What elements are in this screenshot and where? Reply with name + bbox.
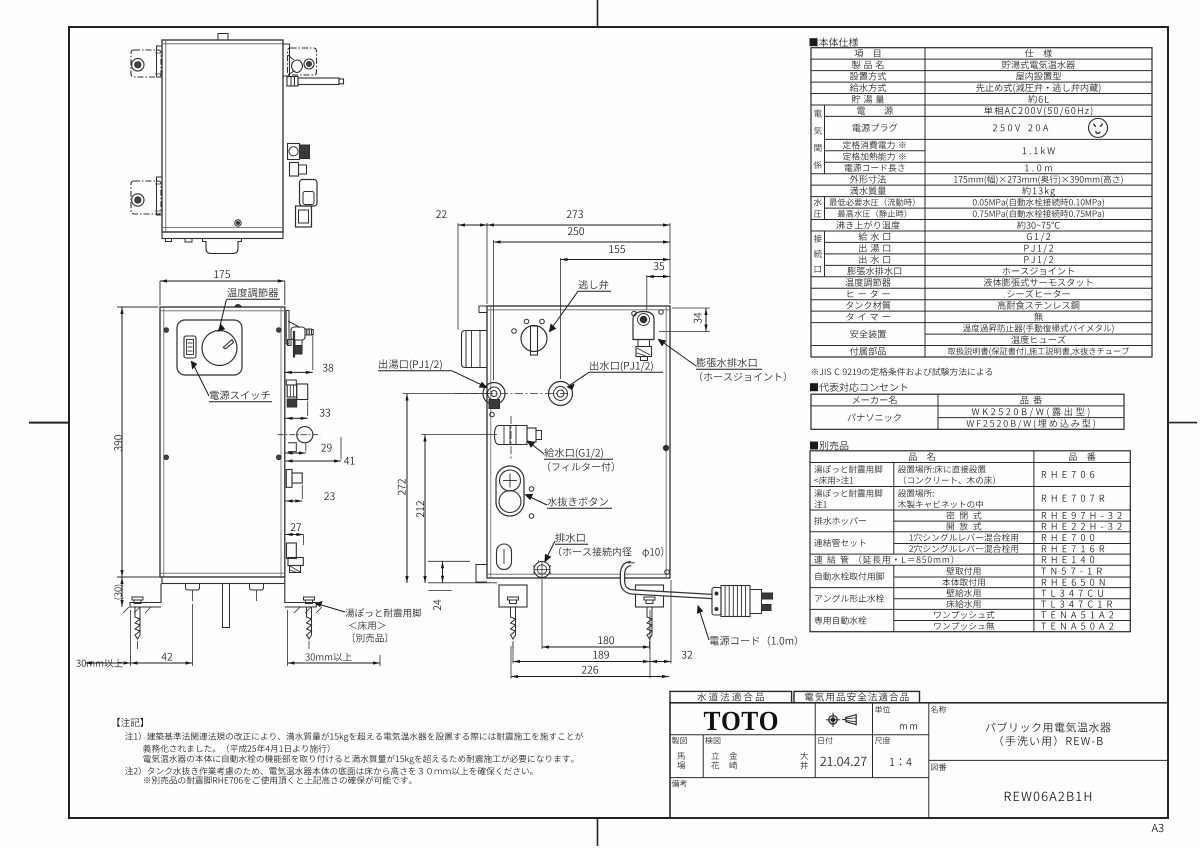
right anchor screw front bbox=[304, 597, 315, 600]
top view top tab bbox=[218, 34, 228, 41]
phantom lines left brackets bbox=[155, 52, 163, 54]
center mark right bbox=[1168, 422, 1197, 424]
top view left bracket lower bbox=[131, 181, 161, 214]
top view outlet pipe bbox=[287, 77, 298, 87]
top view body bbox=[162, 40, 283, 232]
label 電源コード bbox=[710, 636, 797, 646]
mount rails bbox=[157, 46, 163, 77]
oval slot bbox=[497, 544, 512, 570]
notes block bbox=[117, 718, 143, 727]
group label 水圧 bbox=[814, 198, 822, 206]
fitting 出水口 face bbox=[549, 382, 573, 406]
TOTO logo bbox=[704, 712, 777, 731]
option table rows bbox=[909, 452, 935, 460]
dim 33 bbox=[307, 401, 309, 416]
dim 34 bbox=[672, 307, 710, 309]
top view relief valve teardrop bbox=[292, 60, 303, 73]
label 逃し弁 bbox=[578, 280, 608, 289]
dim 42 and 30mm以上 bbox=[130, 610, 132, 666]
dim 23 bbox=[301, 485, 303, 500]
lift tab on top edge bbox=[235, 305, 242, 308]
center mark bottom bbox=[597, 818, 599, 846]
temperature knob bbox=[202, 331, 237, 366]
dim 38 bbox=[312, 334, 314, 370]
label 電源スイッチ bbox=[210, 390, 270, 399]
control panel bbox=[177, 320, 242, 375]
spec rows bbox=[855, 49, 881, 57]
dim (30) bbox=[121, 577, 123, 607]
排水口 drain port bbox=[534, 562, 550, 578]
top view right elbow block bbox=[300, 180, 318, 207]
relief valve side profile bbox=[286, 311, 289, 345]
centerline fittings bbox=[455, 393, 570, 395]
spec table grid bbox=[811, 48, 1152, 357]
power plug symbol bbox=[1089, 118, 1108, 137]
projection symbol bbox=[829, 716, 837, 724]
front view body bbox=[160, 307, 285, 577]
group label 接続口 bbox=[814, 235, 822, 243]
JIS note bbox=[812, 368, 992, 376]
left anchor screw bbox=[132, 597, 143, 600]
dim 175 bbox=[159, 281, 161, 305]
sheet size label A3 bbox=[1152, 824, 1164, 832]
side view screws bottom bbox=[665, 570, 670, 575]
fitting 出湯口 side bbox=[286, 380, 296, 385]
bolt tabs bbox=[186, 584, 200, 591]
label 水抜きボタン bbox=[547, 497, 608, 506]
label 給水口(G1/2) bbox=[544, 448, 603, 459]
dims bottom 180 189 32 226 bbox=[541, 579, 543, 649]
top view right valve fitting bbox=[288, 144, 300, 160]
front panel screws bbox=[164, 328, 169, 333]
label 温度調節器 bbox=[227, 288, 278, 298]
top view right bracket bbox=[288, 48, 317, 75]
label 耐震用脚 front bbox=[345, 608, 421, 617]
screws near button bbox=[529, 487, 534, 492]
top view screw bbox=[235, 220, 241, 226]
label 出湯口(PJ1/2) bbox=[379, 359, 441, 370]
fitting 出水口 side circle bbox=[297, 427, 313, 443]
top view base bbox=[162, 232, 283, 239]
dim 155 bbox=[560, 258, 562, 379]
group label 電気関係 bbox=[814, 110, 822, 117]
center mark top bbox=[597, 0, 599, 27]
dim 390 bbox=[117, 306, 158, 308]
dim 27 bbox=[291, 523, 301, 531]
label 排水口 bbox=[555, 533, 584, 542]
dim 22 273 bbox=[457, 223, 459, 330]
title block grid bbox=[670, 703, 1168, 818]
label 膨張水排水口 bbox=[696, 358, 756, 367]
side view left hex nut 出湯口 bbox=[462, 331, 488, 368]
fitting 排水口 side bbox=[287, 543, 297, 559]
outlet table title 代表対応コンセント bbox=[810, 383, 907, 392]
side view body bbox=[487, 306, 670, 578]
label 出水口(PJ1/2) bbox=[590, 361, 652, 372]
fitting 給水口 side bbox=[286, 470, 292, 488]
fitting 膨張水排水口 bbox=[633, 312, 654, 340]
center mark left bbox=[29, 422, 69, 424]
screws near relief valve bbox=[512, 329, 517, 334]
power switch bbox=[184, 336, 196, 358]
floor hatch bbox=[123, 607, 151, 613]
base plate front bbox=[162, 577, 285, 584]
leg bracket front bbox=[130, 584, 161, 608]
fitting 給水口 bbox=[495, 426, 528, 445]
spec table title 本体仕様 bbox=[810, 38, 859, 47]
side view bottom-left step bbox=[476, 565, 487, 583]
dim 250 bbox=[493, 240, 495, 380]
option table title 別売品 bbox=[810, 441, 848, 450]
dim 272 212 24 bbox=[403, 393, 489, 395]
dim 29 and 41 bbox=[305, 444, 307, 452]
relief valve 逃し弁 bbox=[521, 326, 547, 352]
side anchors bbox=[511, 607, 516, 639]
side view top-left step bbox=[479, 306, 487, 313]
power plug bbox=[712, 588, 721, 616]
fitting 出湯口 face bbox=[483, 383, 505, 405]
top view left bracket upper bbox=[131, 50, 161, 77]
top view right small fitting bbox=[290, 163, 299, 177]
title block labels bbox=[875, 706, 890, 713]
top view bottom cap bbox=[203, 239, 242, 254]
side view legs bbox=[499, 585, 527, 607]
screws top right bbox=[632, 311, 637, 316]
certification strip bbox=[670, 691, 792, 702]
power cord bbox=[623, 564, 713, 597]
dim 35 bbox=[646, 275, 648, 310]
水抜きボタン drain button bbox=[496, 466, 524, 516]
